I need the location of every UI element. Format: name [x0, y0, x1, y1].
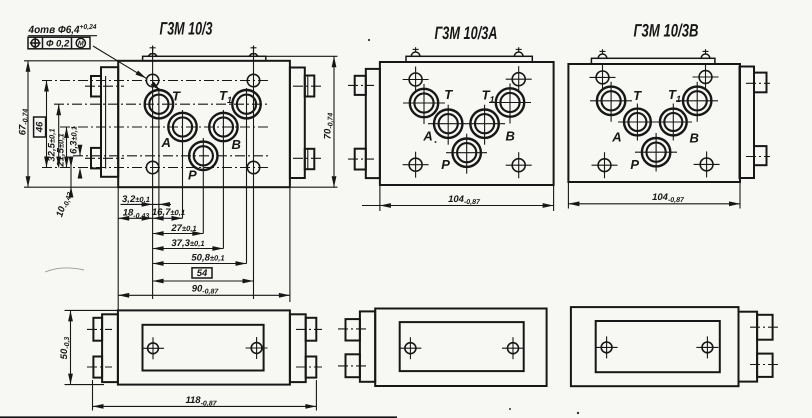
view 1 mount row top centerline: [42, 80, 269, 82]
view 2 plate outline (GZM 10/3A): [380, 62, 554, 185]
view 3 dim 104 line: [568, 203, 740, 205]
view 6 right strip: [739, 312, 758, 382]
view 2 port A: [434, 110, 462, 138]
view 5 body outline: [375, 309, 546, 387]
dim 54 box: [192, 268, 212, 278]
view 4 right end cap: [290, 314, 306, 382]
view 3 right flange block: [740, 67, 755, 179]
view 3 top strip: [591, 58, 715, 64]
view 6 hole left: [596, 336, 618, 358]
view 3 port P: [642, 138, 670, 166]
view 2 port B crosshair: [484, 105, 486, 145]
dim 27 line: [153, 233, 204, 235]
view 4 right tab bottom: [306, 357, 317, 378]
view 1 P col line: [202, 138, 204, 234]
view 1 mount col right line: [253, 46, 255, 299]
svg-text:T: T: [633, 88, 642, 103]
svg-text:27±0,1: 27±0,1: [170, 223, 196, 234]
view 6 tab centerlines: [750, 326, 780, 328]
view 1 plate outline (GZM 10/3 top view): [118, 61, 290, 187]
view 2 boss left: [411, 52, 420, 56]
view 2 mount hole bottom-right: [506, 152, 532, 178]
view 3 port B: [660, 109, 687, 136]
view 3 port T: [597, 87, 625, 115]
scan mark bottom edge line: [0, 416, 397, 418]
dim 37.3 line: [153, 248, 224, 250]
svg-text:A: A: [611, 129, 621, 144]
scan speck 3: [577, 412, 579, 414]
view 1 T row centerline: [54, 103, 269, 105]
svg-text:37,3±0,1: 37,3±0,1: [171, 238, 204, 249]
plate edge ext left: [117, 187, 119, 310]
dim 21.5 line: [66, 127, 68, 168]
view 1 P row centerline: [73, 155, 269, 157]
dim 70 ext top: [266, 55, 338, 57]
dim 54 line: [153, 280, 254, 282]
view 1 A row centerline: [60, 126, 269, 128]
dim 46 box: [34, 117, 46, 137]
view 4 hole right: [246, 337, 268, 359]
scan speck 4: [509, 408, 511, 410]
view 3 mount hole bottom-right: [694, 151, 720, 177]
view 5 tab centerlines: [338, 328, 368, 330]
view 4 body outline: [118, 310, 290, 384]
view 3 port A: [624, 109, 651, 136]
view 2 port T: [410, 89, 438, 117]
view 4 inner rect: [143, 325, 264, 371]
view 2 dim 104 line: [362, 205, 554, 207]
view 3 boss marks: [602, 49, 604, 54]
view 1 mount hole bottom-right: [247, 161, 259, 173]
view 3 tab centerlines: [746, 82, 770, 84]
view 4 hole left: [142, 337, 164, 359]
leader arrow 2: [151, 82, 162, 93]
view 3 boss right: [701, 54, 710, 58]
dim 70 line: [333, 56, 335, 187]
svg-text:54: 54: [197, 268, 208, 279]
view 2 tab centerlines: [348, 84, 374, 86]
view 5 left tab bottom: [346, 354, 360, 377]
view 6 body outline: [571, 307, 739, 386]
view 1 port P: [189, 142, 217, 170]
view 5 left tab top: [346, 319, 360, 340]
view 3 mount hole bottom-left: [592, 152, 618, 178]
dim 6.3 line: [79, 148, 81, 156]
svg-text:B: B: [506, 129, 515, 144]
scan speck 1: [368, 39, 370, 41]
svg-text:A: A: [161, 135, 171, 150]
svg-text:P: P: [630, 157, 639, 172]
dim 118 line: [93, 405, 317, 407]
dim 50.8 line: [153, 263, 247, 265]
dim 50 line: [70, 310, 72, 384]
view 3 right tab top: [754, 73, 767, 93]
view 2 dim 104 ext lines: [379, 185, 381, 211]
view 1 boss centerline marks: [152, 46, 154, 54]
view 1 right flange block: [290, 68, 305, 179]
svg-text:Г3M 10/3: Г3M 10/3: [160, 19, 213, 39]
view 2 port A crosshair: [428, 123, 505, 125]
svg-text:T: T: [444, 87, 453, 102]
svg-text:50,8±0,1: 50,8±0,1: [191, 252, 224, 263]
view 3 dim 104 ext lines: [567, 182, 569, 209]
dim 70 ext bottom: [291, 186, 338, 188]
svg-text:46: 46: [35, 121, 46, 133]
view 2 boss right: [514, 52, 523, 56]
dim 3.2 line: [121, 203, 172, 205]
view 1 right tab top: [305, 76, 315, 97]
dim 10 line: [70, 158, 72, 193]
view 2 left flange block: [366, 69, 380, 178]
view 4 left tab bottom: [93, 357, 102, 378]
view 2 port B: [470, 110, 498, 138]
svg-text:21,5±0,1: 21,5±0,1: [56, 133, 67, 167]
view 1 top boss right: [249, 54, 258, 57]
svg-text:A: A: [422, 129, 432, 144]
svg-text:Ф 0,2: Ф 0,2: [46, 39, 70, 50]
view 1 B col line: [222, 110, 224, 249]
view 2 left tab top: [355, 76, 366, 95]
view 4 right tab top: [306, 318, 317, 341]
view 3 port T crosshair: [590, 100, 632, 102]
view 1 port A: [168, 113, 196, 141]
view 1 A col line: [182, 110, 184, 218]
svg-text:Г3M 10/3B: Г3M 10/3B: [634, 21, 699, 41]
view 1 left flange block: [101, 67, 118, 177]
view 5 hole right: [502, 337, 524, 359]
view 1 T col line: [158, 88, 160, 218]
view 1 T1 col line: [246, 88, 248, 264]
view 4 left end cap: [102, 314, 118, 382]
view 5 left strip: [360, 311, 375, 381]
view 1 left tab top: [91, 76, 101, 97]
view 5 inner rect: [400, 322, 524, 371]
view 3 port T1: [683, 87, 711, 115]
feature control frame box: [28, 37, 90, 49]
svg-text:Г3M 10/3A: Г3M 10/3A: [435, 23, 498, 43]
view 3 mount hole top-left: [590, 64, 616, 90]
view 1 mount hole top-left: [146, 74, 158, 86]
view 2 port P crosshair: [446, 152, 487, 154]
scan speck 2: [435, 141, 437, 143]
view 1 mount row bottom centerline: [42, 167, 269, 169]
view 5 hole left: [399, 337, 421, 359]
view 3 port P crosshair: [635, 151, 677, 153]
leader arrow 1: [136, 71, 148, 81]
view 3 right tab bottom: [754, 146, 767, 165]
view 2 boss marks: [415, 47, 417, 52]
view 1 mount col left line: [152, 46, 154, 299]
view 6 inner rect: [596, 321, 720, 372]
view 1 port B: [209, 113, 237, 141]
svg-text:16,7±0,1: 16,7±0,1: [152, 207, 185, 218]
view 1 right tab bottom: [305, 149, 315, 169]
view 1 left flange inner edge: [105, 76, 107, 169]
view 2 port P: [453, 139, 481, 167]
view 2 port T crosshair: [403, 102, 445, 104]
scan stray curve: [45, 268, 84, 272]
dim 67 line: [27, 61, 29, 187]
svg-text:B: B: [690, 131, 699, 146]
svg-text:B: B: [232, 137, 241, 152]
dim 118 ext lines: [92, 380, 94, 411]
plate edge ext right: [289, 187, 291, 302]
view 2 mount hole bottom-left: [403, 152, 429, 178]
view 6 hole right: [696, 336, 718, 358]
view 3 port A crosshair: [618, 121, 692, 123]
view 4 left tab top: [93, 318, 102, 341]
view 1 port T: [145, 90, 173, 118]
dim 18 line: [118, 217, 152, 219]
note underline: [28, 35, 97, 37]
view 2 port T1: [496, 88, 524, 116]
view 6 right tab bottom: [757, 354, 773, 377]
svg-text:M: M: [78, 41, 84, 48]
view 2 top strip: [406, 56, 532, 62]
view 2 mount hole top-right: [506, 66, 532, 92]
dim 67 ext bottom: [24, 186, 118, 188]
view 3 port B crosshair: [672, 104, 674, 141]
dim 32.5 line: [58, 104, 60, 167]
view 4 tab centerlines: [87, 328, 112, 330]
dim 67 ext top: [24, 60, 118, 62]
leader line to holes: [93, 46, 160, 91]
dim 50 ext lines: [65, 309, 121, 311]
view 2 port T1 crosshair: [489, 102, 531, 104]
svg-text:P: P: [188, 168, 197, 183]
dim 90 line: [118, 294, 290, 296]
view 1 tab centerlines dash-dot: [85, 85, 124, 87]
view 1 left tab bottom: [91, 148, 101, 169]
svg-text:P: P: [441, 157, 450, 172]
svg-text:T: T: [172, 89, 181, 104]
view 1 mount hole top-right: [247, 74, 259, 86]
dim 16.7 line: [153, 217, 183, 219]
view 2 mount hole top-left: [403, 67, 429, 93]
view 6 right tab top: [757, 315, 773, 340]
view 3 plate outline (GZM 10/3V): [568, 64, 740, 182]
view 3 boss left: [598, 54, 607, 58]
svg-text:3,2±0,1: 3,2±0,1: [122, 194, 150, 205]
view 1 right tab inner lines: [307, 76, 309, 97]
view 1 port T1: [232, 90, 260, 118]
view 1 top boss left: [148, 54, 157, 57]
svg-text:6,3±0,1: 6,3±0,1: [68, 126, 79, 154]
dim 46 line: [46, 81, 48, 168]
view 1 top gasket strip: [143, 56, 266, 61]
view 1 mount hole bottom-left: [146, 161, 158, 173]
view 3 mount hole top-right: [693, 64, 719, 90]
view 2 left tab bottom: [355, 149, 366, 170]
view 3 port T1 crosshair: [676, 100, 718, 102]
